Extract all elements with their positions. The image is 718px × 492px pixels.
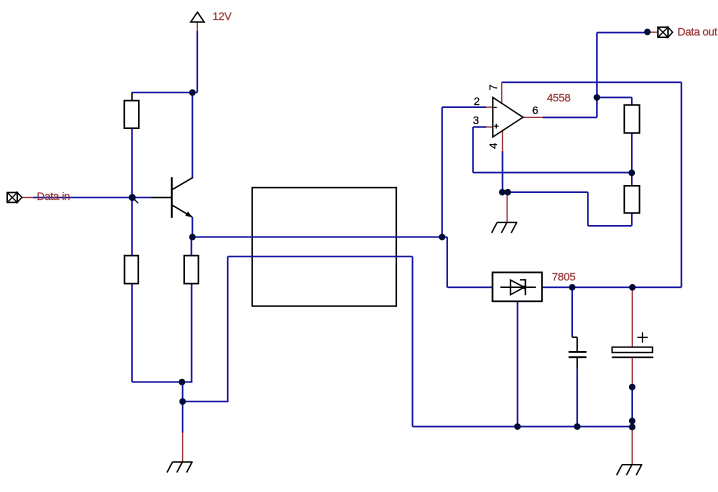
svg-text:7805: 7805: [552, 271, 576, 283]
svg-text:4558: 4558: [547, 93, 571, 105]
svg-text:Data out: Data out: [678, 26, 718, 38]
svg-text:2: 2: [474, 96, 480, 108]
svg-text:6: 6: [532, 105, 538, 117]
svg-text:12V: 12V: [213, 11, 233, 23]
svg-text:Data in: Data in: [37, 191, 70, 203]
svg-text:4: 4: [488, 143, 500, 149]
svg-text:3: 3: [473, 115, 479, 127]
svg-text:7: 7: [488, 84, 500, 90]
